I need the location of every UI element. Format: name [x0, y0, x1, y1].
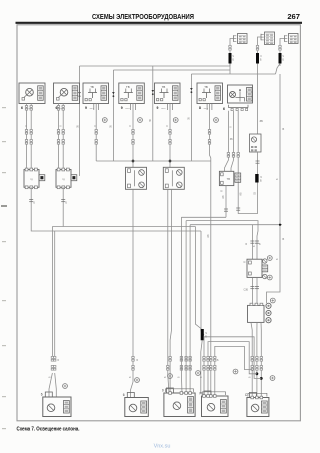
svg-text:ЗБ: ЗБ — [111, 125, 113, 128]
svg-text:С: С — [244, 260, 246, 264]
svg-text:6: 6 — [41, 393, 43, 397]
svg-text:тм-о: тм-о — [161, 108, 166, 110]
svg-text:ЗБ: ЗБ — [150, 119, 152, 122]
svg-text:СБ: СБ — [255, 191, 257, 195]
svg-text:Схема 7. Освещение салона.: Схема 7. Освещение салона. — [17, 427, 80, 433]
svg-text:ЗБ: ЗБ — [78, 125, 80, 128]
svg-text:ТВ: ТВ — [204, 85, 208, 89]
svg-text:Vnx.su: Vnx.su — [154, 444, 171, 450]
svg-text:9: 9 — [157, 106, 159, 110]
svg-text:СХЕМЫ ЭЛЕКТРООБОРУДОВАНИЯ: СХЕМЫ ЭЛЕКТРООБОРУДОВАНИЯ — [92, 12, 194, 21]
svg-text:6: 6 — [123, 393, 125, 397]
svg-text:ТВ: ТВ — [126, 85, 130, 89]
svg-text:ТВ: ТВ — [162, 85, 166, 89]
svg-text:Ч: Ч — [205, 331, 207, 335]
svg-text:тм-о: тм-о — [125, 108, 130, 110]
svg-text:ЗБ: ЗБ — [260, 119, 264, 123]
svg-text:267: 267 — [287, 12, 300, 21]
svg-text:ЗБ: ЗБ — [230, 139, 233, 141]
svg-text:СЗБ: СЗБ — [244, 290, 249, 292]
svg-text:Б: Б — [283, 237, 285, 241]
svg-text:Б: Б — [283, 127, 285, 131]
svg-text:ЖБ: ЖБ — [208, 234, 210, 238]
svg-text:ТВ: ТВ — [90, 85, 94, 89]
svg-text:ЖБ: ЖБ — [223, 195, 225, 199]
svg-text:ТВ: ТВ — [227, 177, 231, 181]
svg-text:6: 6 — [21, 106, 23, 110]
svg-text:тм-о: тм-о — [204, 108, 209, 110]
svg-text:6: 6 — [223, 107, 225, 111]
svg-text:С: С — [221, 189, 223, 193]
svg-text:ЖБ: ЖБ — [241, 192, 243, 196]
svg-text:0: 0 — [162, 389, 164, 393]
svg-text:ЗБ: ЗБ — [189, 117, 191, 120]
svg-text:Б: Б — [260, 179, 262, 183]
svg-text:8: 8 — [199, 106, 201, 110]
svg-text:9: 9 — [121, 106, 123, 110]
svg-text:Ч: Ч — [260, 175, 262, 179]
svg-text:9: 9 — [85, 106, 87, 110]
